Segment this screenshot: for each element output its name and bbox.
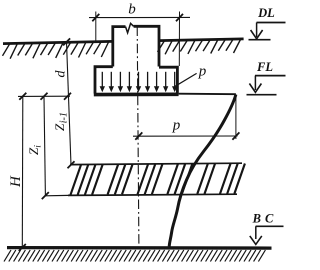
b dimension tick left [92,14,99,21]
ground surface line (right of column) [159,39,244,41]
soil layer bottom boundary [68,194,237,195]
svg-text:b: b [128,2,136,18]
svg-text:H: H [8,175,24,188]
tick H at BC [19,244,26,251]
column break mark [126,23,134,32]
label H [8,175,24,188]
footing pad base (FL) [94,93,179,97]
z_i dimension line [44,96,45,196]
ground surface line (left of column) [3,41,113,43]
FL reference line for dimensions [18,95,70,97]
soil layer top boundary [70,163,242,164]
b extension line left [95,12,97,43]
b extension line right [178,12,180,67]
H dimension line [21,96,24,247]
DL level marker [249,6,286,40]
contact pressure arrows p [100,72,178,92]
p dimension line [133,135,238,137]
svg-text:DL: DL [257,6,275,20]
label d [54,70,69,78]
tick z_i at layer bottom [42,192,49,199]
hatching below BC line [4,250,265,262]
foundation level line extension [179,93,236,96]
svg-text:FL: FL [256,60,273,74]
tick z_i-1 at layer top [68,161,75,168]
b dimension tick right [176,14,183,21]
BC boundary line [7,246,272,250]
label z_i [26,145,44,155]
FL level marker [247,60,286,95]
leader line to p [175,73,196,86]
footing column [113,27,126,67]
ground hatching left [3,42,109,59]
p dimension tick right [232,132,239,139]
BC level marker [250,212,284,245]
svg-text:p: p [198,64,207,80]
tick H at FL [19,93,26,100]
tick z_i-1 at FL [64,93,71,100]
soil layer hatching [71,164,245,195]
svg-text:d: d [54,70,69,78]
label z_i-1 [52,112,70,131]
ground hatching right [158,39,242,55]
svg-text:p: p [172,118,181,134]
tick d at ground [63,38,70,45]
footing pad outline [95,67,113,94]
d and z_i-1 dimension line [67,42,72,165]
dimension line b [89,16,190,18]
tick z_i at FL [41,93,48,100]
svg-text:BC: BC [252,212,278,226]
p dimension extension line at curve [235,95,237,140]
p dimension tick left [135,132,142,139]
footing centerline (dash-dot) [137,27,139,247]
soil layer bottom stub to zi tick [45,194,69,196]
stress distribution curve [169,95,236,247]
